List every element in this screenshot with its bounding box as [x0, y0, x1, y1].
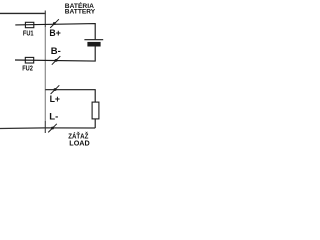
terminal arrow L- [48, 124, 57, 133]
wire: L+ wire to load [45, 90, 95, 102]
svg-text:L+: L+ [50, 94, 60, 104]
svg-text:L-: L- [49, 111, 58, 121]
wire: B- wire through FU2 to battery [15, 46, 95, 61]
battery positive plate [84, 39, 103, 41]
svg-text:B+: B+ [49, 28, 60, 38]
terminal arrow B- [52, 56, 61, 65]
fuse FU2 [25, 57, 33, 63]
svg-text:FU1: FU1 [23, 28, 34, 37]
fuse FU1 [25, 22, 33, 27]
terminal arrow L+ [51, 85, 60, 94]
wire: regulator box right border [44, 11, 46, 28]
svg-text:B-: B- [51, 46, 61, 56]
resistor: load [92, 102, 99, 119]
svg-text:LOAD: LOAD [69, 138, 89, 147]
wire: load bottom lead [94, 119, 96, 128]
wire: B+ wire through FU1 to battery [15, 24, 95, 40]
wire: regulator box top edge bus [0, 12, 46, 14]
svg-text:FU2: FU2 [22, 64, 33, 73]
wire: bottom bus / L- wire [0, 127, 95, 130]
battery negative plate [87, 42, 100, 47]
terminal arrow B+ [50, 19, 59, 28]
svg-text:BATTERY: BATTERY [65, 8, 96, 15]
